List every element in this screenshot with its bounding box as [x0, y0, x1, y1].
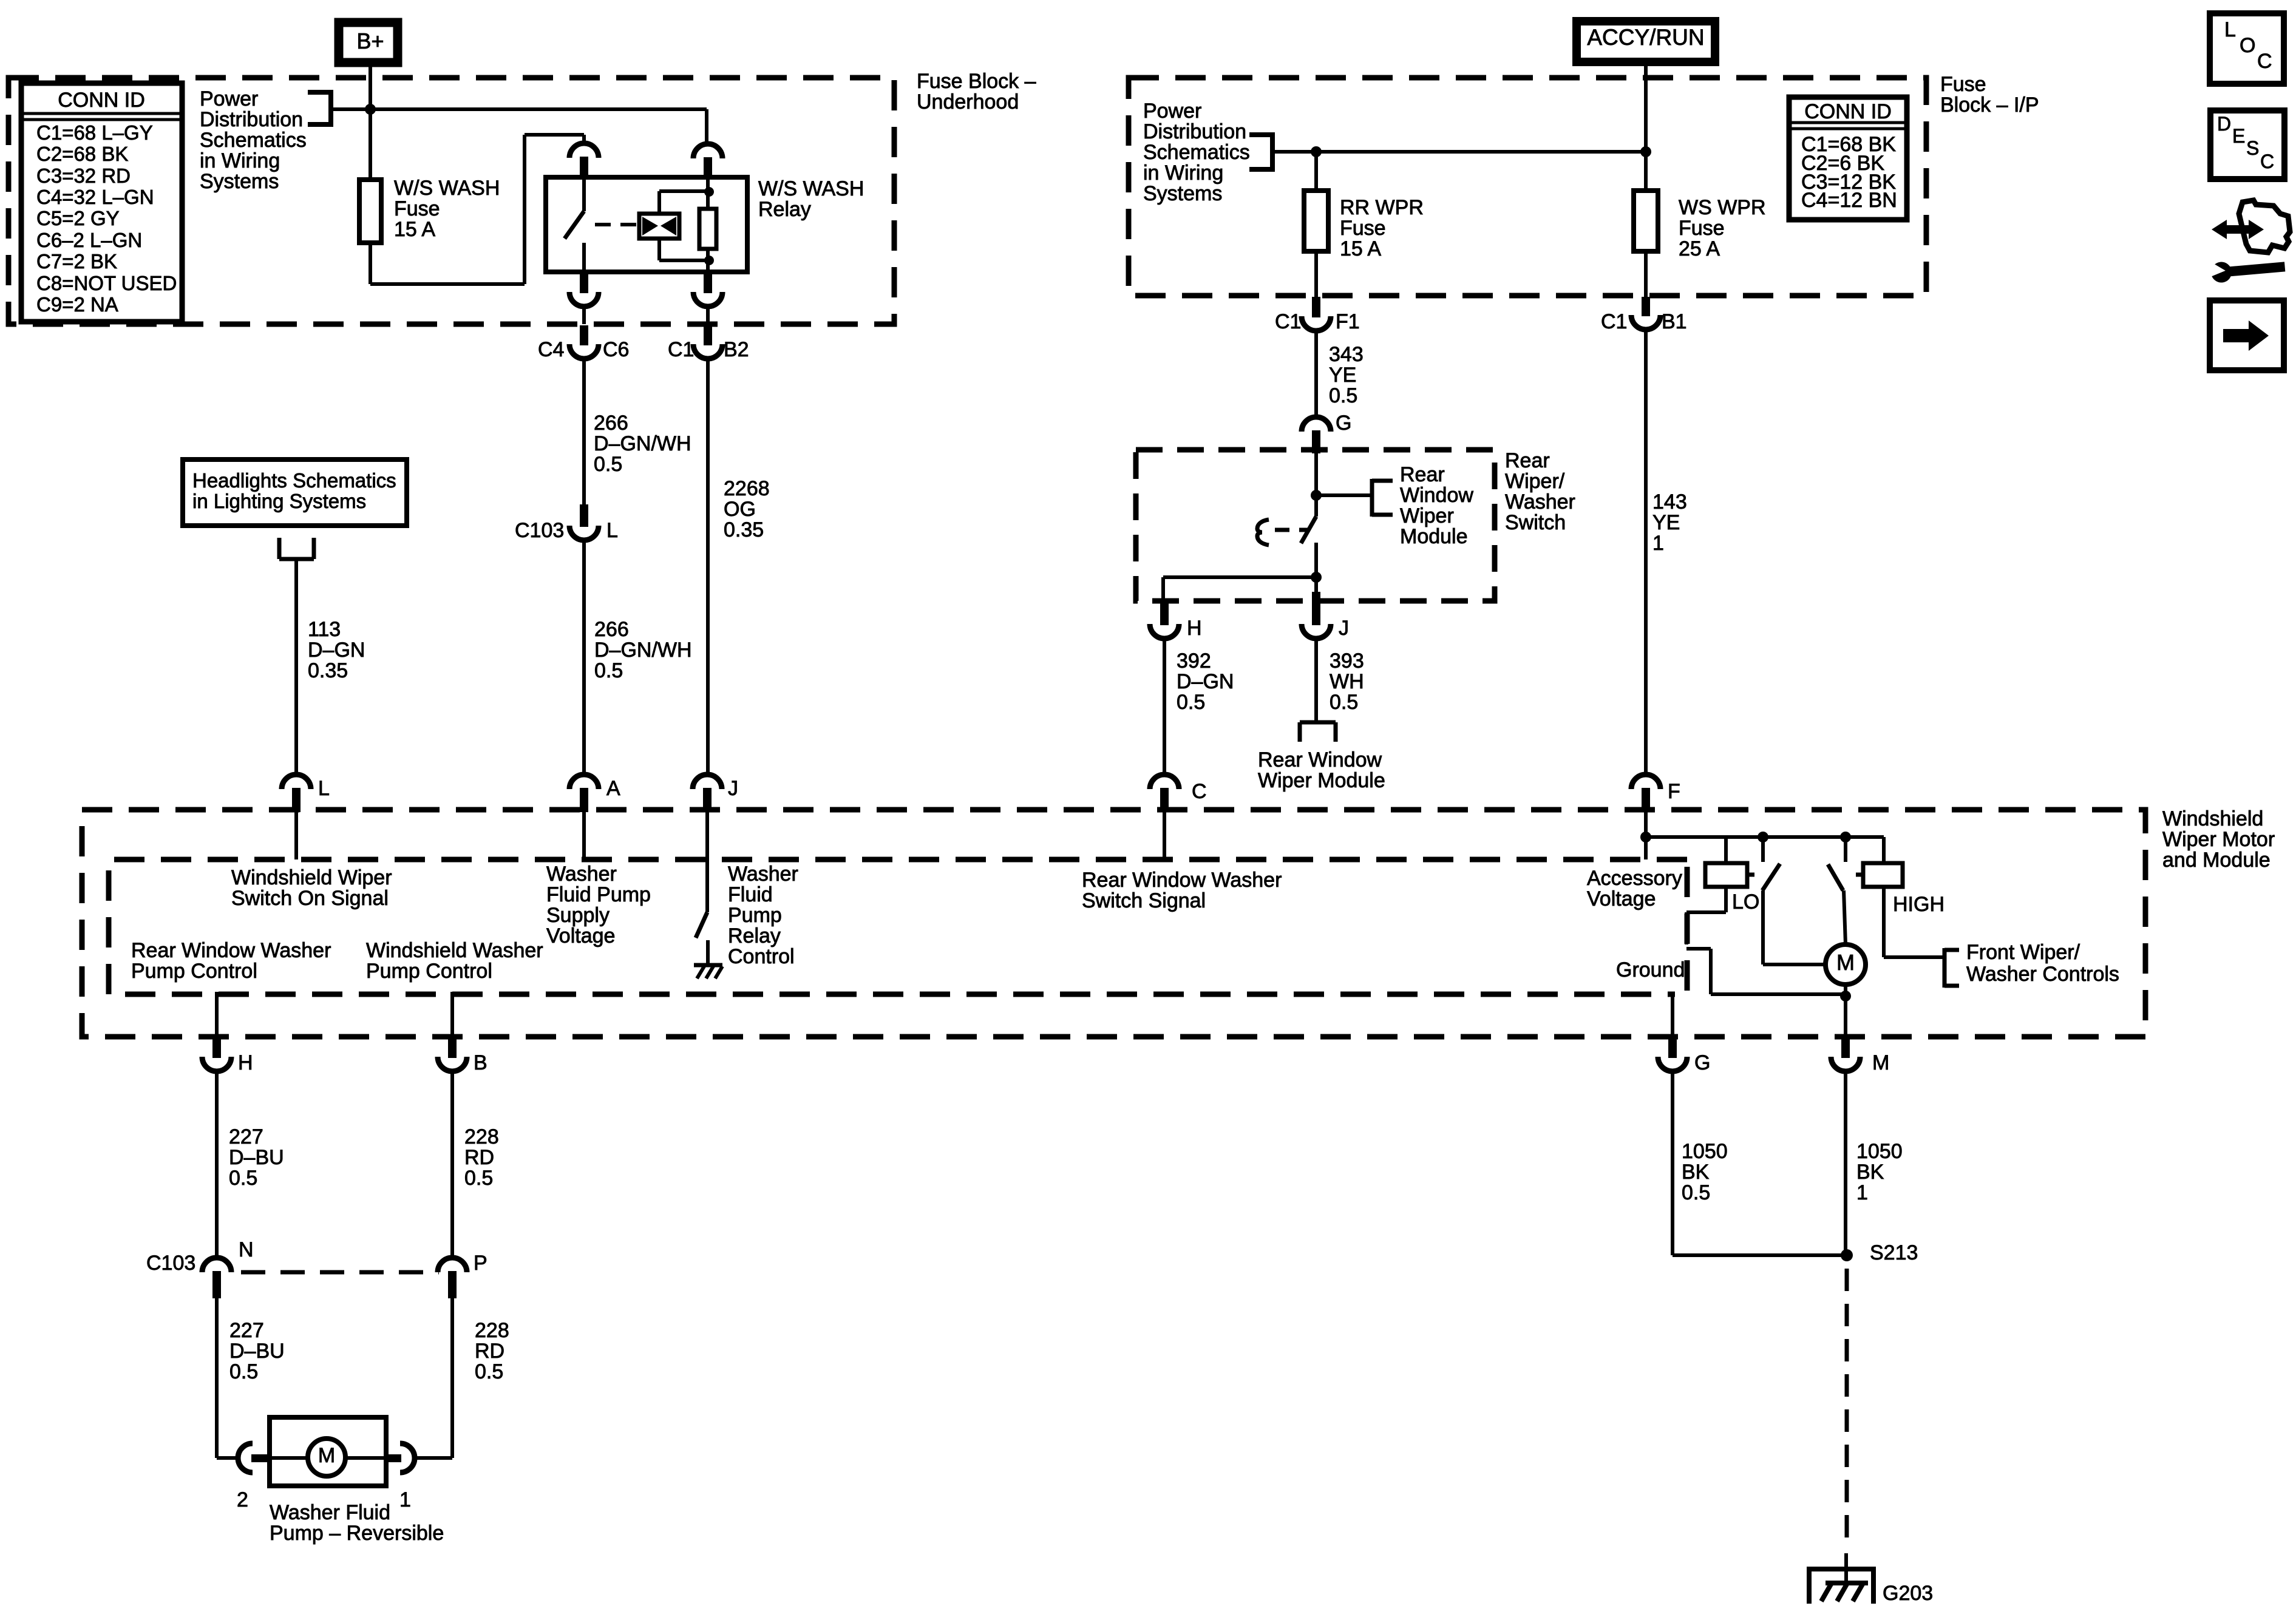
svg-text:Washer: Washer	[546, 863, 617, 886]
svg-text:Rear: Rear	[1505, 449, 1550, 472]
svg-text:Relay: Relay	[758, 198, 811, 221]
svg-text:YE: YE	[1329, 364, 1356, 387]
svg-text:G: G	[1336, 412, 1351, 435]
svg-text:343: 343	[1329, 343, 1364, 366]
svg-text:C4=32 L–GN: C4=32 L–GN	[36, 186, 154, 208]
svg-text:C: C	[2260, 151, 2274, 172]
svg-text:L: L	[2224, 18, 2236, 41]
svg-text:228: 228	[475, 1319, 509, 1342]
svg-text:C1=68 L–GY: C1=68 L–GY	[36, 121, 153, 144]
svg-text:CONN ID: CONN ID	[58, 89, 145, 112]
svg-text:Rear: Rear	[1400, 463, 1445, 486]
svg-text:Distribution: Distribution	[200, 108, 303, 131]
svg-text:O: O	[2240, 34, 2255, 57]
svg-text:266: 266	[594, 618, 629, 641]
svg-text:1050: 1050	[1682, 1140, 1728, 1163]
svg-text:in Wiring: in Wiring	[200, 149, 280, 172]
svg-text:LO: LO	[1732, 890, 1759, 914]
svg-text:0.5: 0.5	[229, 1167, 257, 1190]
svg-text:Windshield: Windshield	[2162, 807, 2263, 830]
svg-text:C1: C1	[1601, 310, 1627, 333]
svg-text:CONN ID: CONN ID	[1804, 100, 1892, 123]
svg-text:C8=NOT USED: C8=NOT USED	[36, 272, 177, 294]
svg-text:D–GN: D–GN	[308, 639, 365, 662]
svg-text:RR WPR: RR WPR	[1340, 196, 1424, 219]
svg-text:Headlights Schematics: Headlights Schematics	[192, 469, 396, 492]
svg-text:227: 227	[229, 1319, 264, 1342]
svg-text:Windshield Washer: Windshield Washer	[366, 939, 543, 962]
svg-text:N: N	[239, 1238, 254, 1261]
svg-text:in Lighting Systems: in Lighting Systems	[192, 490, 366, 512]
svg-text:392: 392	[1177, 649, 1211, 673]
svg-text:D–BU: D–BU	[229, 1146, 284, 1169]
svg-text:C3=32 RD: C3=32 RD	[36, 164, 131, 187]
svg-text:OG: OG	[724, 498, 756, 521]
svg-text:M: M	[1872, 1051, 1889, 1074]
svg-text:0.5: 0.5	[594, 453, 622, 476]
svg-text:1: 1	[1652, 532, 1664, 555]
svg-text:Windshield Wiper: Windshield Wiper	[231, 866, 392, 889]
svg-text:E: E	[2232, 125, 2245, 147]
svg-text:Power: Power	[200, 87, 258, 110]
svg-text:Wiper Module: Wiper Module	[1258, 769, 1385, 792]
svg-text:Window: Window	[1400, 484, 1473, 507]
svg-text:0.5: 0.5	[229, 1360, 258, 1383]
svg-text:B+: B+	[356, 29, 384, 53]
svg-text:Schematics: Schematics	[1143, 141, 1250, 164]
svg-text:C1: C1	[668, 338, 694, 361]
svg-text:0.5: 0.5	[594, 659, 623, 682]
svg-text:S: S	[2246, 137, 2259, 159]
svg-text:D: D	[2217, 113, 2231, 135]
svg-text:0.5: 0.5	[1682, 1181, 1710, 1204]
svg-text:Washer: Washer	[1505, 490, 1575, 514]
svg-text:0.5: 0.5	[1177, 691, 1205, 714]
svg-text:0.5: 0.5	[475, 1360, 503, 1383]
svg-text:C103: C103	[515, 519, 564, 542]
svg-text:B2: B2	[724, 338, 749, 361]
svg-text:D–GN/WH: D–GN/WH	[594, 432, 691, 455]
svg-text:Supply: Supply	[546, 904, 610, 927]
svg-text:Fuse: Fuse	[1340, 217, 1386, 240]
svg-text:Pump: Pump	[728, 904, 782, 927]
svg-text:G203: G203	[1883, 1582, 1933, 1605]
svg-text:2268: 2268	[724, 477, 770, 500]
svg-text:Pump – Reversible: Pump – Reversible	[270, 1522, 444, 1545]
svg-text:Pump Control: Pump Control	[366, 960, 492, 983]
svg-text:H: H	[238, 1051, 253, 1074]
svg-text:D–GN: D–GN	[1177, 670, 1234, 693]
svg-text:P: P	[474, 1252, 487, 1275]
svg-text:Block – I/P: Block – I/P	[1940, 93, 2039, 117]
svg-text:C2=68 BK: C2=68 BK	[36, 143, 128, 165]
svg-text:228: 228	[464, 1125, 499, 1148]
svg-text:C9=2 NA: C9=2 NA	[36, 293, 118, 316]
svg-text:227: 227	[229, 1125, 263, 1148]
svg-text:0.35: 0.35	[308, 659, 348, 682]
svg-text:1: 1	[399, 1488, 411, 1511]
svg-text:C6: C6	[603, 338, 629, 361]
svg-text:Front Wiper/: Front Wiper/	[1966, 941, 2080, 964]
svg-text:1050: 1050	[1856, 1140, 1903, 1163]
svg-text:Control: Control	[728, 945, 795, 968]
svg-text:J: J	[1339, 617, 1349, 640]
svg-text:Power: Power	[1143, 100, 1201, 123]
svg-text:D–BU: D–BU	[229, 1340, 285, 1363]
svg-text:C4: C4	[538, 338, 564, 361]
svg-text:0.35: 0.35	[724, 518, 764, 541]
svg-text:Voltage: Voltage	[546, 924, 615, 947]
svg-text:Washer Fluid: Washer Fluid	[270, 1501, 390, 1524]
svg-text:L: L	[318, 777, 330, 800]
svg-text:Wiper Motor: Wiper Motor	[2162, 828, 2275, 851]
svg-text:15 A: 15 A	[394, 218, 435, 241]
svg-text:Washer: Washer	[728, 863, 798, 886]
svg-text:Distribution: Distribution	[1143, 120, 1246, 143]
svg-text:C1: C1	[1275, 310, 1301, 333]
svg-text:G: G	[1694, 1051, 1710, 1074]
svg-text:113: 113	[308, 618, 341, 641]
svg-text:Fuse Block –: Fuse Block –	[917, 70, 1036, 93]
svg-text:Fuse: Fuse	[394, 197, 440, 220]
svg-text:Fuse: Fuse	[1679, 217, 1725, 240]
svg-text:Switch: Switch	[1505, 511, 1566, 534]
svg-text:C: C	[2257, 50, 2272, 73]
svg-text:0.5: 0.5	[464, 1167, 493, 1190]
svg-text:Switch On Signal: Switch On Signal	[231, 887, 389, 910]
svg-text:W/S WASH: W/S WASH	[394, 177, 500, 200]
svg-text:Relay: Relay	[728, 924, 781, 947]
svg-text:B: B	[474, 1051, 487, 1074]
svg-text:0.5: 0.5	[1329, 384, 1357, 407]
svg-text:15 A: 15 A	[1340, 237, 1381, 260]
svg-text:and Module: and Module	[2162, 849, 2271, 872]
svg-text:H: H	[1187, 617, 1202, 640]
svg-text:Wiper: Wiper	[1400, 504, 1454, 527]
svg-text:Fuse: Fuse	[1940, 73, 1986, 96]
svg-text:Washer Controls: Washer Controls	[1966, 963, 2119, 986]
svg-text:A: A	[606, 777, 620, 800]
svg-text:BK: BK	[1682, 1161, 1710, 1184]
svg-text:393: 393	[1330, 649, 1364, 673]
svg-text:0.5: 0.5	[1330, 691, 1358, 714]
svg-text:Fluid Pump: Fluid Pump	[546, 883, 651, 906]
svg-text:Systems: Systems	[1143, 182, 1222, 205]
svg-text:143: 143	[1652, 490, 1687, 514]
svg-text:25 A: 25 A	[1679, 237, 1720, 260]
svg-text:Schematics: Schematics	[200, 129, 307, 152]
svg-text:C7=2 BK: C7=2 BK	[36, 250, 117, 273]
svg-text:C5=2 GY: C5=2 GY	[36, 207, 120, 229]
svg-text:in Wiring: in Wiring	[1143, 161, 1223, 185]
svg-text:WS WPR: WS WPR	[1679, 196, 1766, 219]
svg-text:Systems: Systems	[200, 170, 279, 193]
svg-text:1: 1	[1856, 1181, 1868, 1204]
svg-text:F: F	[1668, 780, 1680, 803]
svg-text:S213: S213	[1870, 1241, 1918, 1264]
svg-text:M: M	[318, 1444, 335, 1467]
svg-text:M: M	[1836, 950, 1855, 975]
svg-text:Fluid: Fluid	[728, 883, 773, 906]
svg-text:266: 266	[594, 412, 628, 435]
svg-text:Pump Control: Pump Control	[131, 960, 257, 983]
svg-text:HIGH: HIGH	[1893, 893, 1944, 916]
svg-text:C: C	[1192, 780, 1207, 803]
svg-text:L: L	[606, 519, 618, 542]
svg-text:C103: C103	[146, 1252, 195, 1275]
svg-text:C4=12 BN: C4=12 BN	[1801, 189, 1897, 212]
svg-text:Rear Window: Rear Window	[1258, 748, 1382, 771]
svg-text:C6–2 L–GN: C6–2 L–GN	[36, 229, 142, 251]
svg-text:Ground: Ground	[1616, 958, 1685, 981]
svg-text:Rear Window Washer: Rear Window Washer	[1082, 869, 1282, 892]
svg-text:Accessory: Accessory	[1587, 867, 1682, 890]
svg-text:Voltage: Voltage	[1587, 887, 1656, 910]
svg-text:Module: Module	[1400, 525, 1468, 548]
svg-text:2: 2	[237, 1488, 248, 1511]
svg-text:F1: F1	[1336, 310, 1360, 333]
svg-text:WH: WH	[1330, 670, 1364, 693]
svg-text:J: J	[728, 777, 738, 800]
svg-text:Switch Signal: Switch Signal	[1082, 889, 1206, 912]
svg-text:Rear Window Washer: Rear Window Washer	[131, 939, 331, 962]
svg-text:ACCY/RUN: ACCY/RUN	[1587, 25, 1704, 50]
svg-text:Wiper/: Wiper/	[1505, 470, 1565, 493]
svg-text:BK: BK	[1856, 1161, 1884, 1184]
svg-text:RD: RD	[464, 1146, 494, 1169]
svg-text:B1: B1	[1662, 310, 1687, 333]
svg-text:W/S WASH: W/S WASH	[758, 177, 864, 200]
svg-text:D–GN/WH: D–GN/WH	[594, 639, 692, 662]
svg-text:YE: YE	[1652, 511, 1680, 534]
svg-text:Underhood: Underhood	[917, 90, 1019, 114]
svg-text:RD: RD	[475, 1340, 504, 1363]
